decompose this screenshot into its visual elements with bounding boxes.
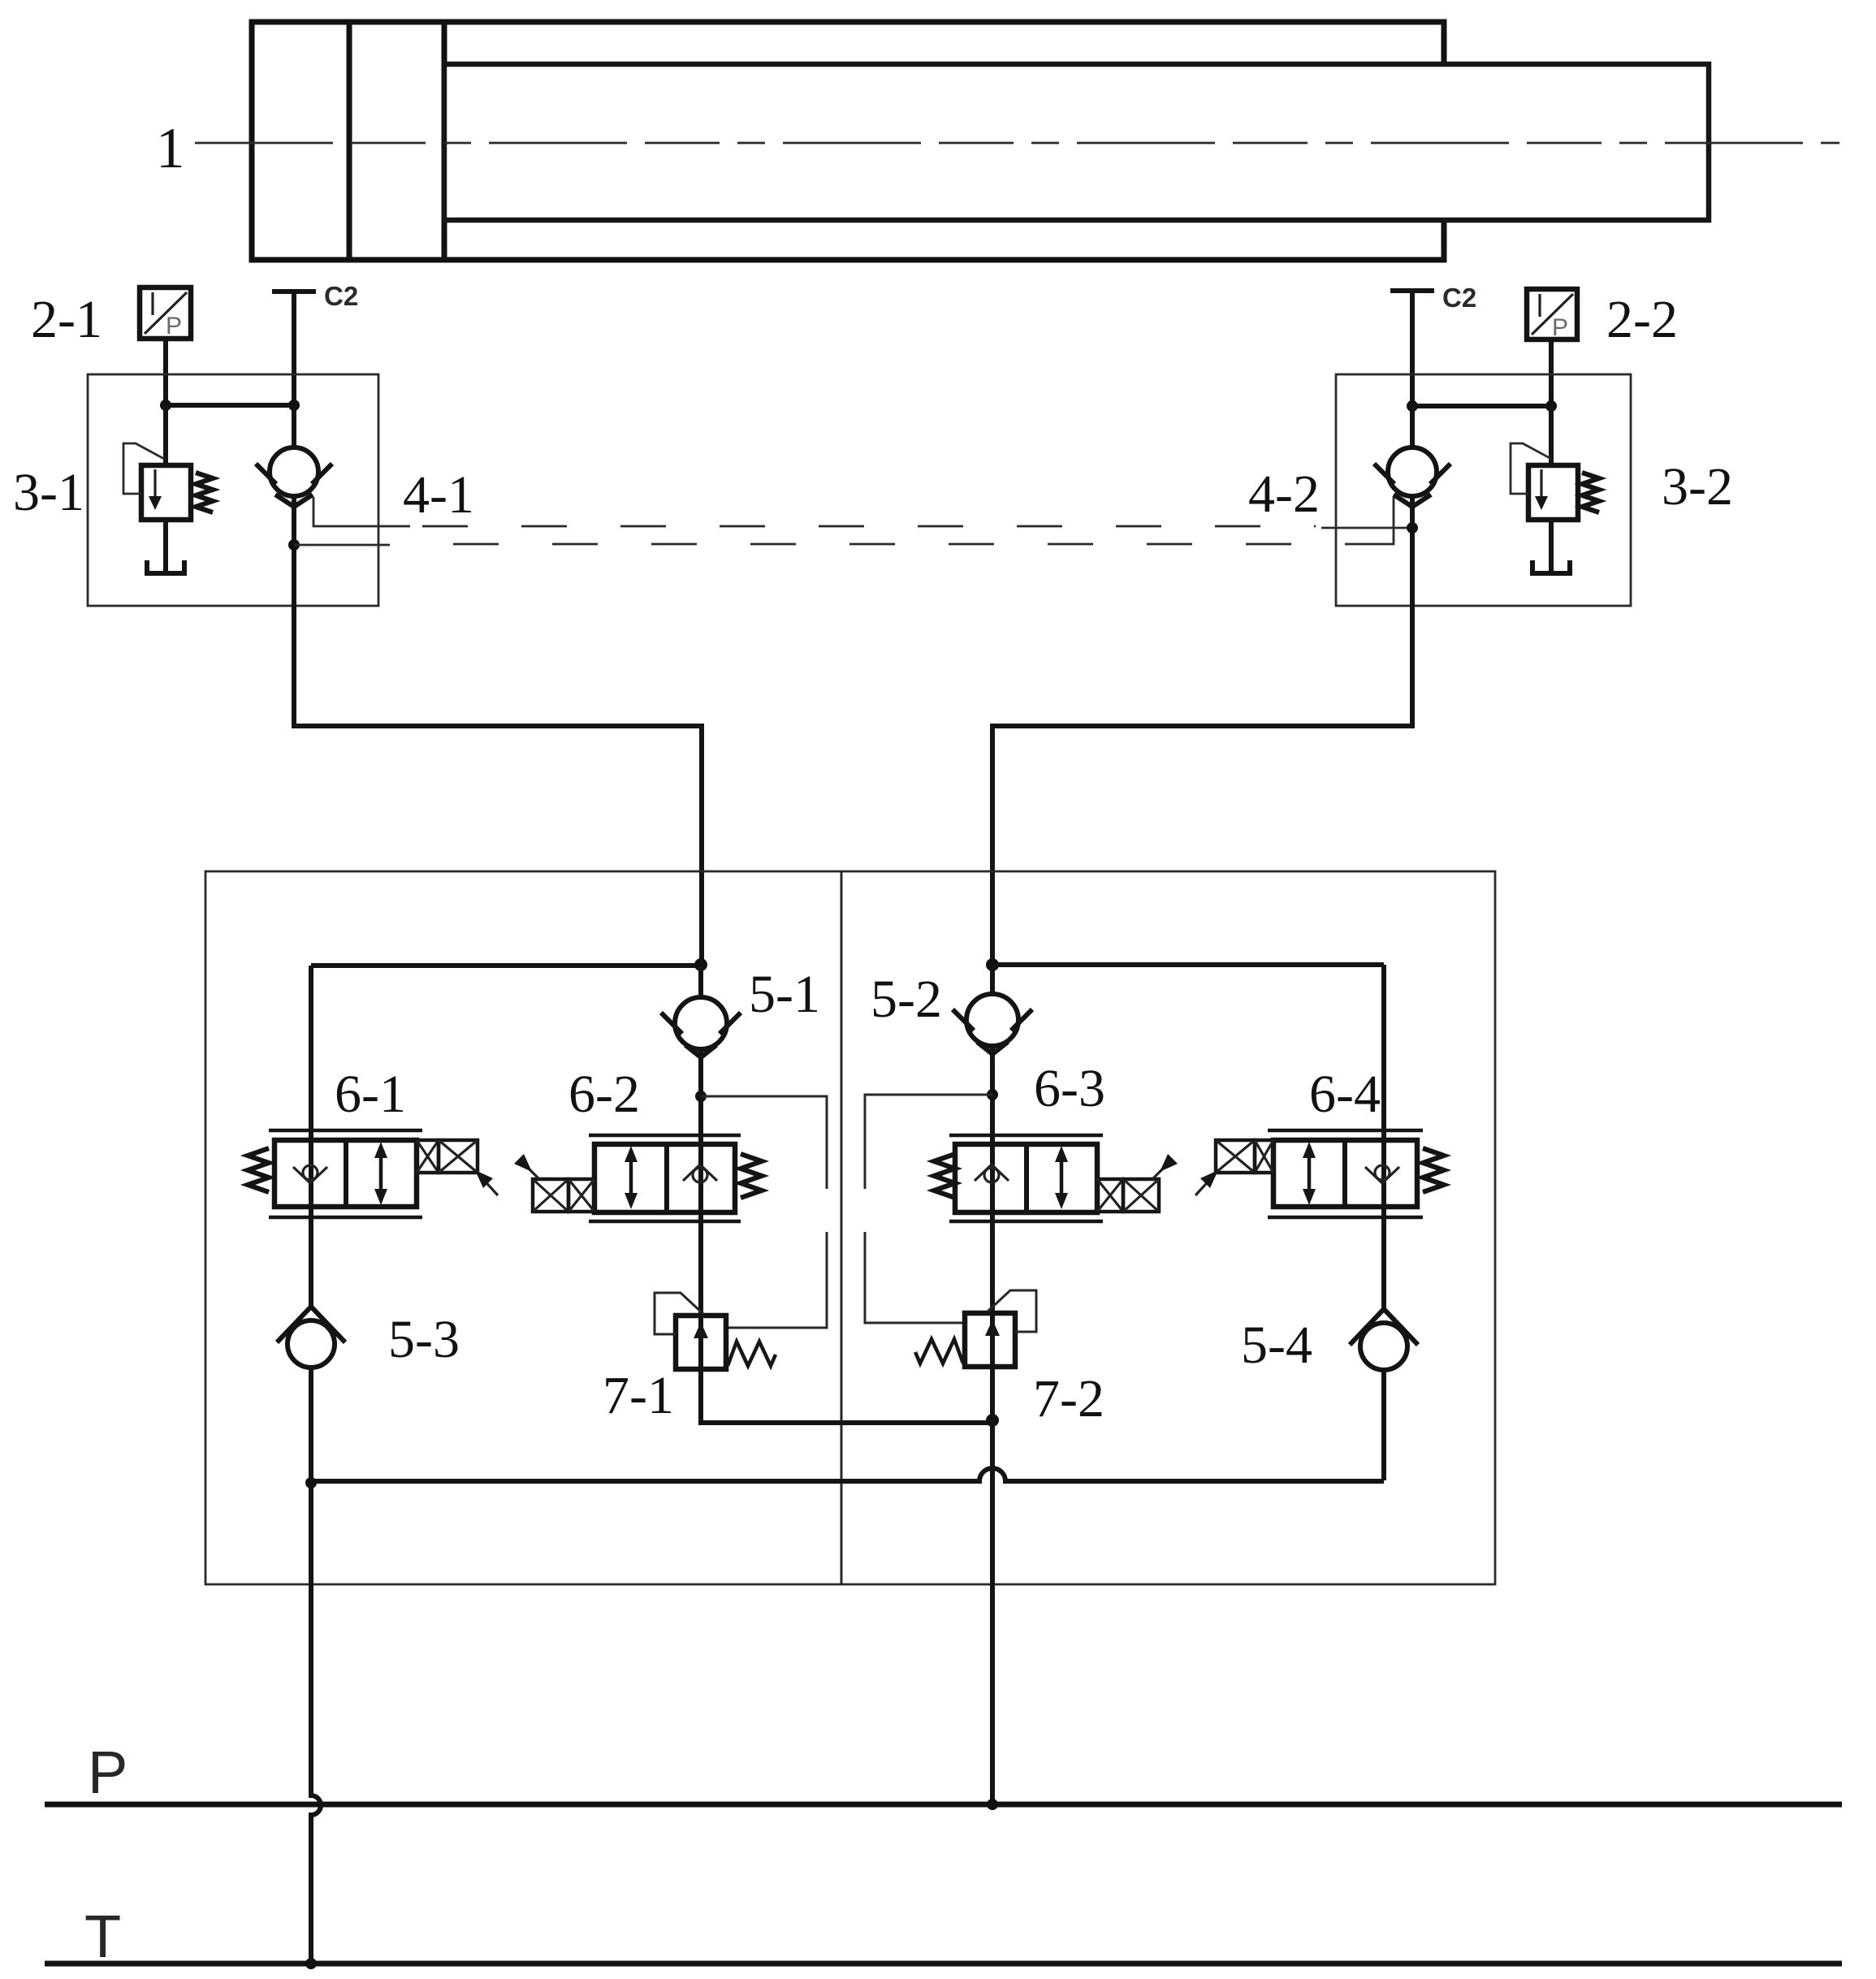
main line through 6-4 <box>1381 1130 1386 1217</box>
svg-text:6-4: 6-4 <box>1309 1065 1381 1124</box>
node dot T <box>305 1958 317 1969</box>
P line <box>45 1802 1842 1808</box>
svg-text:7-2: 7-2 <box>1033 1369 1104 1428</box>
node dot C2 left <box>288 400 300 411</box>
body 6-4 <box>1273 1140 1417 1207</box>
check valve 5-1 <box>661 966 741 1142</box>
wire right inner branch top <box>992 962 1384 967</box>
wire 6-4 to 5-4 <box>1381 1217 1386 1310</box>
pilot dash line upper row <box>422 525 1316 528</box>
svg-text:C2: C2 <box>1442 283 1476 313</box>
solenoid 6-2 <box>533 1179 568 1212</box>
spring 6-4 <box>1423 1148 1444 1192</box>
solenoid 6-1 <box>417 1140 439 1173</box>
wire right outer branch <box>1381 965 1386 1142</box>
cylinder 1 rod <box>444 64 1709 220</box>
svg-text:6-3: 6-3 <box>1034 1059 1105 1118</box>
svg-text:P: P <box>1552 314 1568 341</box>
wire to relief 3-1 <box>163 405 168 465</box>
wire sensor 2-1 to node <box>163 339 168 405</box>
svg-text:P: P <box>88 1739 128 1806</box>
cylinder 1 piston line A <box>347 22 352 260</box>
directional valve 6-4 <box>1195 1130 1444 1217</box>
relief valve 3-2 <box>1511 443 1599 520</box>
node dot below 5-2 <box>987 1089 998 1100</box>
counterbalance valve 7-2 <box>915 1290 1036 1367</box>
spring 6-1 <box>248 1148 269 1192</box>
arrows 6-1 <box>379 1147 383 1200</box>
wire bottom rail with hop <box>311 1468 1384 1481</box>
check glyph 6-2 <box>683 1164 700 1181</box>
port C2 right <box>1390 283 1476 406</box>
pressure sensor 2-1 <box>140 287 191 339</box>
T line <box>45 1961 1842 1967</box>
wire to relief 3-2 <box>1549 406 1554 465</box>
wire 3-1 to tank <box>163 520 168 573</box>
main line through 6-3 <box>990 1135 995 1221</box>
directional valve 6-1 <box>248 1130 498 1217</box>
pilot stub 4-1 lower <box>294 544 390 547</box>
arrows 6-3 <box>1060 1151 1064 1204</box>
pilot dash line lower row <box>404 543 1348 546</box>
wire 6-2 to 7-1 <box>698 1221 703 1316</box>
arrows 6-2 <box>629 1151 633 1204</box>
body 6-1 <box>274 1140 417 1207</box>
node dot below 5-1 <box>695 1091 707 1102</box>
wire junction 2-2 to 4-2 <box>1412 404 1551 408</box>
main line through 6-1 <box>309 1130 313 1217</box>
check valve 4-1 pilot operated <box>256 406 332 606</box>
lever 6-2 <box>525 1164 539 1179</box>
arrows 6-4 <box>1308 1147 1312 1200</box>
wire sensor 2-2 to node <box>1549 339 1554 406</box>
wire 6-3 to 7-2 <box>990 1221 995 1313</box>
pilot stub 4-1 upper <box>313 497 410 526</box>
directional valve 6-2 <box>514 1135 762 1221</box>
wire 5-3 down to T with hop over P <box>311 1483 321 1964</box>
check valve 5-3 <box>277 1307 345 1483</box>
node dot right <box>1545 400 1557 412</box>
spring 6-2 <box>741 1154 762 1198</box>
svg-text:6-2: 6-2 <box>568 1065 640 1124</box>
cylinder centerline <box>195 142 1839 145</box>
pilot stub 4-2 upper <box>1321 527 1407 529</box>
node dot P <box>987 1799 998 1810</box>
wire 7-2 down to P <box>990 1367 995 1804</box>
directional valve 6-3 <box>934 1135 1178 1221</box>
svg-text:4-2: 4-2 <box>1248 465 1320 524</box>
spring 6-3 <box>934 1154 955 1198</box>
manifold box <box>205 871 1495 1584</box>
cylinder 1 piston line B <box>442 22 447 260</box>
port C2 left <box>272 281 358 406</box>
wire junction 2-1 to 4-1 <box>166 403 294 408</box>
node dot 5-3 bottom <box>305 1477 317 1489</box>
svg-text:P: P <box>166 313 182 339</box>
pressure sensor 2-2 <box>1527 289 1577 341</box>
wire 7-1 to right branch <box>701 1369 992 1423</box>
wire 4-1 down to manifold <box>294 606 702 965</box>
body 6-2 <box>594 1144 735 1212</box>
svg-text:2-1: 2-1 <box>31 290 102 349</box>
node dot C2 right <box>1407 400 1418 412</box>
tank symbol 3-2 <box>1532 560 1570 573</box>
valve block box 3-1/4-1 <box>88 374 378 606</box>
lever 6-1 <box>481 1177 498 1195</box>
node dot below 4-2 <box>1407 522 1418 534</box>
svg-text:T: T <box>84 1903 121 1970</box>
solenoid 6-3 <box>1097 1179 1123 1212</box>
pilot stub 4-2 lower <box>1348 497 1394 544</box>
rails 6-4 <box>1268 1129 1423 1133</box>
svg-text:7-1: 7-1 <box>603 1366 674 1425</box>
check valve 5-4 <box>1350 1309 1418 1480</box>
cylinder 1 barrel <box>252 22 1444 260</box>
tank symbol 3-1 <box>147 560 184 573</box>
pilot line 7-2 <box>865 1095 992 1323</box>
node dot 5-1 top <box>694 958 707 971</box>
counterbalance valve 7-1 <box>655 1293 776 1369</box>
solenoid 6-4 <box>1216 1140 1255 1173</box>
relief valve 3-1 <box>123 443 213 520</box>
node dot below 4-1 <box>288 539 300 551</box>
rails 6-1 <box>269 1129 422 1133</box>
check glyph 6-3 <box>975 1164 992 1181</box>
check glyph 6-1 <box>293 1167 310 1183</box>
svg-text:5-2: 5-2 <box>871 970 942 1029</box>
svg-text:3-1: 3-1 <box>13 463 84 522</box>
wire left inner branch top <box>311 963 701 968</box>
pilot line 7-1 <box>701 1096 827 1328</box>
rails 6-3 <box>949 1134 1103 1138</box>
check valve 5-2 <box>953 965 1032 1142</box>
svg-text:4-1: 4-1 <box>403 465 474 525</box>
check valve 4-2 pilot operated <box>1374 406 1450 606</box>
svg-text:C2: C2 <box>324 281 358 311</box>
node dot 5-2 top <box>986 958 999 971</box>
svg-text:5-4: 5-4 <box>1241 1316 1312 1375</box>
rails 6-2 <box>589 1134 741 1138</box>
lever 6-4 <box>1195 1177 1212 1195</box>
wire left outer branch <box>309 966 313 1142</box>
svg-text:1: 1 <box>156 117 185 180</box>
svg-text:5-3: 5-3 <box>388 1310 460 1369</box>
wire 6-1 to 5-3 <box>309 1217 313 1307</box>
wire 3-2 to tank <box>1549 520 1554 573</box>
body 6-3 <box>955 1144 1097 1212</box>
valve block box 3-2/4-2 <box>1336 374 1631 606</box>
svg-text:6-1: 6-1 <box>335 1065 406 1124</box>
manifold center divider <box>841 871 843 1584</box>
node dot left <box>160 400 171 411</box>
svg-text:2-2: 2-2 <box>1606 290 1678 349</box>
lever 6-3 <box>1152 1164 1167 1179</box>
svg-text:5-1: 5-1 <box>749 965 820 1024</box>
node dot 7 join <box>986 1414 999 1427</box>
check glyph 6-4 <box>1365 1167 1382 1183</box>
main line through 6-2 <box>698 1135 703 1221</box>
wire 4-2 down to manifold <box>992 606 1412 965</box>
svg-text:3-2: 3-2 <box>1662 457 1733 516</box>
